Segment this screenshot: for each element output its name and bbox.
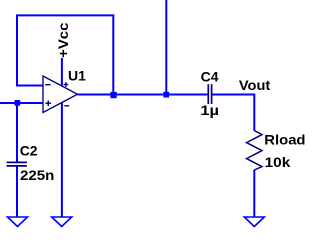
node junction output/top wire	[163, 92, 169, 98]
svg-text:1µ: 1µ	[200, 102, 219, 118]
svg-text:U1: U1	[68, 68, 86, 84]
wire C2 to ground	[16, 166, 18, 217]
svg-text:C4: C4	[201, 69, 219, 85]
op-amp V+ pin plus marker	[64, 84, 69, 86]
svg-text:+Vcc: +Vcc	[55, 22, 71, 58]
wire +Vcc supply to op-amp V+ pin	[61, 58, 63, 86]
ground under op-amp V-	[52, 217, 72, 227]
op-amp V- pin minus marker	[64, 105, 69, 107]
op-amp non-inverting input plus marker	[45, 102, 51, 104]
svg-text:10k: 10k	[265, 154, 291, 170]
svg-text:Rload: Rload	[264, 132, 305, 148]
svg-text:C2: C2	[20, 143, 38, 159]
wire op-amp output to C4	[78, 94, 209, 96]
wire from top edge down to output node	[165, 0, 167, 95]
capacitor C4 plates	[207, 84, 209, 104]
ground under C2	[8, 217, 28, 227]
ground under Rload	[244, 217, 264, 227]
svg-text:Vout: Vout	[239, 77, 271, 93]
node junction on +input (to C2)	[15, 100, 21, 106]
wire C4 to Vout corner	[212, 95, 254, 131]
wire Rload to ground	[253, 170, 255, 218]
capacitor C2 plates	[7, 161, 27, 163]
wire op-amp V- pin to ground	[61, 103, 63, 218]
resistor Rload zigzag	[247, 131, 263, 170]
svg-text:225n: 225n	[20, 167, 54, 183]
wire feedback loop (inverting input to output)	[17, 15, 113, 94]
wire junction down to C2	[16, 103, 18, 163]
node junction output/feedback	[110, 92, 116, 98]
op-amp inverting input minus marker	[45, 84, 50, 86]
wire non-inverting input from left edge	[0, 102, 43, 104]
op-amp U1 triangle body	[43, 76, 78, 113]
